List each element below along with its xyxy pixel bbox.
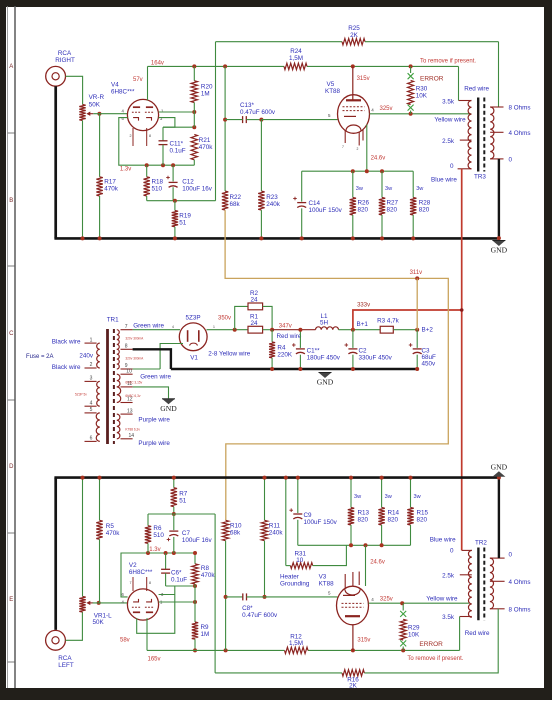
svg-text:5Z3P 5v: 5Z3P 5v <box>75 393 87 397</box>
TR2 2.5k tap <box>460 574 472 576</box>
svg-text:2: 2 <box>90 362 93 368</box>
svg-text:7: 7 <box>130 581 132 585</box>
svg-text:R23: R23 <box>266 194 278 201</box>
resistor R10 68k <box>222 520 228 540</box>
VR-R wiper arrow <box>88 113 93 115</box>
wire branch to R22 / C13 <box>224 66 226 191</box>
svg-text:GND: GND <box>491 463 508 472</box>
svg-text:2K: 2K <box>349 682 358 689</box>
svg-text:1: 1 <box>213 325 215 329</box>
svg-text:470k: 470k <box>106 530 121 537</box>
svg-text:240k: 240k <box>269 530 284 537</box>
resistor R3 4.7k <box>380 326 393 333</box>
resistor R27 820 3w <box>381 171 383 197</box>
svg-text:C12: C12 <box>182 179 194 186</box>
svg-text:Red wire: Red wire <box>277 333 302 340</box>
TR1 primary winding pins 3-4 <box>97 381 100 406</box>
cathode bus wire bottom <box>298 544 411 546</box>
svg-text:311v: 311v <box>410 270 423 276</box>
wire RCA LEFT to pot <box>65 612 82 640</box>
svg-text:3.5k: 3.5k <box>442 99 455 106</box>
resistor R15 820 3w <box>410 478 412 508</box>
wire V5 plate to 164v rail 315v <box>352 66 354 100</box>
svg-text:68k: 68k <box>230 201 241 208</box>
svg-text:KT88: KT88 <box>319 581 335 588</box>
svg-text:8: 8 <box>125 344 128 350</box>
svg-text:7: 7 <box>342 145 344 149</box>
svg-text:24: 24 <box>250 297 258 304</box>
TR2 secondary taps <box>490 557 505 559</box>
svg-text:24.6v: 24.6v <box>370 560 385 566</box>
capacitor C8 0.47uF 600v <box>226 596 243 598</box>
triode V4 6H8C <box>127 99 158 130</box>
svg-text:LEFT: LEFT <box>58 662 74 669</box>
svg-text:C14: C14 <box>309 200 321 207</box>
resistor R6 510 <box>147 514 149 526</box>
wire pot bottom to ground <box>82 121 84 239</box>
svg-text:5Z3P: 5Z3P <box>186 315 201 322</box>
svg-text:10: 10 <box>126 368 132 374</box>
svg-text:Purple wire: Purple wire <box>138 440 170 447</box>
pentode V3 KT88 <box>337 586 369 625</box>
svg-text:TR3: TR3 <box>474 174 486 181</box>
svg-text:R4: R4 <box>277 345 286 352</box>
svg-text:3: 3 <box>90 376 93 382</box>
resistor R4 220K <box>271 330 273 342</box>
V4 cathode pin stubs <box>132 128 134 146</box>
svg-text:R15: R15 <box>417 510 429 517</box>
svg-text:R29: R29 <box>408 625 420 632</box>
svg-text:8: 8 <box>149 581 151 585</box>
wire V3 pin4 to TR2 yellow tap 325v <box>369 602 469 604</box>
resistor R30 10K error branch <box>410 66 412 73</box>
svg-text:Green wire: Green wire <box>140 374 171 381</box>
svg-text:315v: 315v <box>357 76 370 82</box>
svg-text:510: 510 <box>153 532 164 539</box>
capacitor C7 100uF 16v <box>173 514 175 530</box>
svg-text:6H8C 3,15v: 6H8C 3,15v <box>125 381 142 385</box>
svg-text:C2: C2 <box>359 348 368 355</box>
svg-text:100uF 150v: 100uF 150v <box>309 207 343 214</box>
TR1 primary winding 240v pins 1-2 <box>97 343 100 368</box>
capacitor C9 100uF 150v <box>297 478 299 513</box>
resistor R11 240k <box>264 478 266 521</box>
svg-text:1.3v: 1.3v <box>149 547 160 553</box>
svg-text:50K: 50K <box>89 102 101 109</box>
svg-text:3w: 3w <box>414 494 422 500</box>
svg-text:1M: 1M <box>201 91 210 98</box>
svg-text:450v: 450v <box>422 361 437 368</box>
svg-text:100uF 150v: 100uF 150v <box>304 519 338 526</box>
svg-text:330uF 450v: 330uF 450v <box>359 355 393 362</box>
wire pin3 node <box>159 594 175 596</box>
svg-text:347v: 347v <box>279 324 292 330</box>
wire 8 ohm tap to R16 feedback <box>364 609 498 673</box>
choke L1 5H <box>316 327 339 330</box>
ground bus bottom channel <box>54 476 499 479</box>
svg-text:10: 10 <box>296 557 304 564</box>
svg-text:820: 820 <box>388 517 399 524</box>
svg-text:R7: R7 <box>179 491 188 498</box>
svg-text:R24: R24 <box>290 48 302 55</box>
orange wire 311v <box>225 210 448 520</box>
svg-text:V1: V1 <box>190 355 198 362</box>
output transformer TR2 <box>468 550 471 617</box>
svg-text:68k: 68k <box>230 530 241 537</box>
resistor R13 820 3w <box>350 478 352 508</box>
ground power supply <box>319 373 332 379</box>
TR2 0 tap (red wire from B+) <box>462 549 472 551</box>
capacitor C14 100uF 150v <box>301 171 303 201</box>
svg-text:R3 4,7k: R3 4,7k <box>377 318 400 325</box>
svg-text:325v: 325v <box>380 597 393 603</box>
svg-text:51: 51 <box>179 498 187 505</box>
wire 165v rail <box>147 649 285 651</box>
wire V4 pin 1 to R20/R21 node <box>159 111 195 113</box>
svg-text:B+1: B+1 <box>357 321 369 328</box>
TR3 3.5k tap <box>459 100 472 102</box>
svg-text:R20: R20 <box>201 84 213 91</box>
svg-text:820: 820 <box>417 517 428 524</box>
node cathode junctions <box>145 163 149 167</box>
svg-text:240v: 240v <box>79 353 94 360</box>
power transformer TR1 core <box>106 329 109 444</box>
wire cathode node to feedback <box>147 200 216 202</box>
resistor R18 510 <box>146 165 148 177</box>
wire V5 cathode to bias resistors <box>366 125 368 172</box>
svg-text:E: E <box>9 597 13 603</box>
svg-text:V3: V3 <box>319 574 327 581</box>
svg-text:180uF 450v: 180uF 450v <box>307 355 341 362</box>
wire TR1 pin 9 (green) <box>133 368 161 370</box>
svg-text:3w: 3w <box>356 186 364 192</box>
wire V1 output 350v <box>207 329 249 331</box>
resistor R7 51 <box>173 478 175 488</box>
svg-text:R14: R14 <box>388 510 400 517</box>
V2 heater pin stubs <box>132 577 134 591</box>
ground TR2 <box>492 471 505 477</box>
TR1 winding pins 11-12 <box>117 387 121 403</box>
svg-text:Blue wire: Blue wire <box>430 537 456 544</box>
capacitor C12 100uF 16v <box>172 165 174 181</box>
svg-text:2: 2 <box>130 134 132 138</box>
svg-text:C: C <box>9 331 14 337</box>
potentiometer VR-R 50K <box>79 105 85 121</box>
svg-text:KT88: KT88 <box>325 88 341 95</box>
svg-text:100uF 16v: 100uF 16v <box>182 537 213 544</box>
resistor R31 10 heater grounding <box>285 478 287 566</box>
svg-text:1: 1 <box>90 337 93 343</box>
svg-text:8: 8 <box>149 134 151 138</box>
svg-text:2.5k: 2.5k <box>442 572 455 579</box>
RCA LEFT ground wire <box>54 478 57 630</box>
svg-text:R13: R13 <box>358 510 370 517</box>
wire B+1 rail <box>339 329 381 331</box>
svg-text:325v: 325v <box>380 106 393 112</box>
capacitor C11 0.1uF <box>162 127 164 141</box>
wire 347v red wire node <box>272 329 315 331</box>
svg-text:220K: 220K <box>277 352 293 359</box>
capacitor C3 68uF 450v <box>416 330 418 348</box>
wire V1 filament to pin9 <box>160 344 183 370</box>
svg-text:Fuse = 2A: Fuse = 2A <box>26 354 54 360</box>
resistor R5 470k <box>99 478 101 521</box>
svg-text:Red wire: Red wire <box>465 630 490 637</box>
svg-text:2K: 2K <box>350 32 359 39</box>
svg-text:2-8 Yellow wire: 2-8 Yellow wire <box>208 351 251 358</box>
svg-text:Yellow wire: Yellow wire <box>434 117 466 124</box>
resistor R2 24 (upper) <box>235 306 248 329</box>
svg-text:470k: 470k <box>201 572 216 579</box>
svg-text:TR2: TR2 <box>475 539 487 546</box>
resistor R17 470k <box>99 114 101 177</box>
svg-text:R26: R26 <box>358 200 370 207</box>
wire TR1 pin7 to rectifier green wire <box>133 329 180 331</box>
svg-text:KT88 6,3v: KT88 6,3v <box>125 428 140 432</box>
svg-text:1M: 1M <box>201 631 210 638</box>
wire wiper to V4 grid pin 4 <box>93 113 127 115</box>
left margin ruler column <box>7 6 9 688</box>
resistor R28 820 3w <box>412 171 414 197</box>
svg-text:To remove if present.: To remove if present. <box>407 656 463 662</box>
wire V2 pin to 165v rail <box>146 618 148 650</box>
svg-text:RCA: RCA <box>58 50 72 57</box>
svg-text:100uF 16v: 100uF 16v <box>182 186 213 193</box>
wire TR1 pin 8 black center tap to ground <box>133 349 171 369</box>
resistor R22 68k <box>222 191 228 210</box>
svg-text:GND: GND <box>491 246 508 255</box>
svg-text:V4: V4 <box>111 82 119 89</box>
svg-text:R9: R9 <box>201 624 210 631</box>
svg-text:2: 2 <box>357 147 359 151</box>
svg-text:6: 6 <box>90 436 93 442</box>
svg-text:GND: GND <box>317 378 334 387</box>
triode V2 6H8C <box>127 589 158 620</box>
RCA RIGHT ground wire (black) <box>54 86 57 238</box>
orange branch to B+2 <box>416 278 418 329</box>
svg-text:V2: V2 <box>129 562 137 569</box>
svg-text:R5: R5 <box>106 523 115 530</box>
wire V5 pin 4 plate-tap to TR3 yellow tap 325v <box>370 113 472 115</box>
wire V3 plate to 165v rail 315v <box>352 625 354 651</box>
svg-text:R19: R19 <box>179 213 191 220</box>
resistor R12 1.5M <box>285 647 309 653</box>
svg-text:6H8C***: 6H8C*** <box>129 569 153 576</box>
svg-text:3w: 3w <box>354 494 362 500</box>
svg-text:0: 0 <box>509 156 513 163</box>
svg-text:164v: 164v <box>151 60 164 66</box>
svg-text:Purple wire: Purple wire <box>138 417 170 424</box>
resistor R26 820 3w <box>352 171 354 197</box>
svg-text:V5: V5 <box>327 81 335 88</box>
TR1 winding pins 10-11 <box>117 374 120 387</box>
RCA RIGHT input jack <box>46 66 66 86</box>
svg-text:0: 0 <box>450 548 454 555</box>
capacitor C6 0.1uF <box>165 553 167 569</box>
svg-text:Grounding: Grounding <box>280 581 310 588</box>
svg-text:10K: 10K <box>416 93 428 100</box>
svg-text:GND: GND <box>160 404 177 413</box>
resistor R9 1M <box>192 622 198 639</box>
svg-text:510: 510 <box>152 186 163 193</box>
resistor R29 10K error branch <box>402 603 404 610</box>
svg-text:240k: 240k <box>266 201 281 208</box>
RCA LEFT input jack <box>46 630 66 650</box>
resistor R23 240k <box>260 120 262 192</box>
svg-text:R27: R27 <box>387 200 399 207</box>
resistor R1 24 (lower) <box>248 326 263 333</box>
red wire 333v B+1 feed <box>353 310 462 330</box>
svg-text:0: 0 <box>509 552 513 559</box>
svg-text:820: 820 <box>358 207 369 214</box>
svg-text:C11*: C11* <box>170 141 184 148</box>
svg-text:1,5M: 1,5M <box>289 640 303 647</box>
svg-text:50K: 50K <box>93 619 105 626</box>
wire wiper to V2 grid <box>93 602 128 604</box>
svg-text:6H8C***: 6H8C*** <box>111 89 135 96</box>
svg-text:0.47uF 600v: 0.47uF 600v <box>240 109 276 116</box>
wire C13 to KT88 grid pin 5 <box>261 119 337 121</box>
wire grid-box left side (pin 6) <box>119 118 195 166</box>
capacitor C13 0.47uF 600v <box>242 116 244 123</box>
svg-text:Heater: Heater <box>280 574 299 581</box>
rectifier V1 5Z3P <box>179 323 207 351</box>
svg-text:TR1: TR1 <box>107 317 119 324</box>
node wiper junction <box>97 112 101 116</box>
svg-text:C1**: C1** <box>307 348 320 355</box>
red wire B+ vertical TR3 to TR2 <box>461 169 463 551</box>
svg-text:3w: 3w <box>416 186 424 192</box>
svg-text:8 Ohms: 8 Ohms <box>509 105 531 112</box>
svg-text:B: B <box>9 198 13 204</box>
ground TR3 <box>492 241 505 247</box>
svg-text:Green wire: Green wire <box>133 323 164 330</box>
resistor R20 1M <box>193 66 195 80</box>
resistor R24 1.5M <box>284 63 307 69</box>
wire V3 cathode to bias resistors <box>365 545 367 586</box>
svg-text:8 Ohms: 8 Ohms <box>509 606 531 613</box>
svg-text:470k: 470k <box>199 144 214 151</box>
svg-text:R6: R6 <box>153 525 162 532</box>
svg-text:R8: R8 <box>201 565 210 572</box>
resistor R19 51 <box>174 201 176 211</box>
svg-text:R28: R28 <box>419 200 431 207</box>
svg-text:C9: C9 <box>304 512 313 519</box>
svg-text:D: D <box>9 464 14 470</box>
svg-text:R17: R17 <box>104 179 116 186</box>
svg-text:7: 7 <box>125 324 128 330</box>
svg-text:24.6v: 24.6v <box>371 156 386 162</box>
TR3 secondary taps <box>490 106 503 108</box>
svg-text:0: 0 <box>450 163 454 170</box>
capacitor C1 180uF 450v <box>299 330 301 348</box>
svg-text:Red wire: Red wire <box>464 86 489 93</box>
svg-text:0.1uF: 0.1uF <box>170 148 186 155</box>
svg-text:333v: 333v <box>357 303 370 309</box>
svg-text:10K: 10K <box>408 632 420 639</box>
svg-text:RIGHT: RIGHT <box>55 57 75 64</box>
V5 pin stubs <box>344 131 346 143</box>
svg-text:820: 820 <box>419 207 430 214</box>
resistor R14 820 3w <box>381 478 383 508</box>
svg-text:R22: R22 <box>230 194 242 201</box>
wire V2 cathode path 58v <box>137 595 175 634</box>
svg-text:4: 4 <box>90 400 93 406</box>
svg-text:R21: R21 <box>199 137 211 144</box>
svg-text:470k: 470k <box>104 186 119 193</box>
ground bus power supply <box>171 368 417 370</box>
svg-text:58v: 58v <box>120 638 130 644</box>
wire 57v node to V4 pin 2 <box>147 66 149 100</box>
wire cathode node R6/C7 <box>148 513 215 515</box>
resistor R21 470k <box>191 134 197 159</box>
ground pin11 <box>162 399 175 405</box>
TR2 3.5k tap <box>460 616 472 618</box>
svg-text:ERROR: ERROR <box>420 76 444 83</box>
svg-text:57v: 57v <box>133 77 143 83</box>
wire TR1 pin 11 to GND <box>133 387 169 399</box>
svg-text:820: 820 <box>387 207 398 214</box>
wire V4 pin 3 to C11 node <box>159 118 175 128</box>
wire V2 pin 1 to R8/R9 node <box>159 601 195 603</box>
svg-text:3w: 3w <box>385 186 393 192</box>
svg-text:5: 5 <box>90 407 93 413</box>
svg-text:Blue wire: Blue wire <box>431 177 457 184</box>
wire TR2 secondary 0 to ground <box>498 478 500 558</box>
svg-text:Black wire: Black wire <box>52 364 81 371</box>
svg-text:C8*: C8* <box>242 605 253 612</box>
svg-text:C13*: C13* <box>240 102 255 109</box>
wire feedback to cathode node <box>214 514 216 673</box>
TR3 2.5k tap <box>460 139 472 141</box>
svg-text:820: 820 <box>358 517 369 524</box>
wire 164v rail <box>148 65 285 67</box>
svg-text:320v 300mA: 320v 300mA <box>125 337 144 341</box>
svg-text:6H8C 6,3v: 6H8C 6,3v <box>125 394 140 398</box>
svg-text:24: 24 <box>250 320 258 327</box>
svg-text:51: 51 <box>179 220 187 227</box>
svg-text:0.47uF 600v: 0.47uF 600v <box>242 612 278 619</box>
svg-text:5H: 5H <box>320 320 329 327</box>
svg-text:14: 14 <box>129 433 135 439</box>
svg-text:VR-R: VR-R <box>89 94 105 101</box>
TR3 0 tap to B+ red wire <box>458 168 472 170</box>
wire grid-box left (pin 6) <box>121 553 195 597</box>
svg-text:To remove if present.: To remove if present. <box>420 59 476 65</box>
resistor R16 2K feedback <box>342 670 364 676</box>
svg-text:R18: R18 <box>152 179 164 186</box>
svg-text:Black wire: Black wire <box>52 339 81 346</box>
svg-text:350v: 350v <box>218 316 231 322</box>
V3 pin stubs <box>344 574 346 589</box>
TR1 primary winding pins 5-6 <box>96 413 100 442</box>
svg-text:Yellow wire: Yellow wire <box>426 596 458 603</box>
wire RCA RIGHT to volume pot <box>66 76 83 104</box>
TR1 HT winding pins 7-8-9 <box>117 330 119 350</box>
wire pot top to ground <box>82 478 84 597</box>
svg-text:165v: 165v <box>148 657 161 663</box>
svg-text:320v 300mA: 320v 300mA <box>125 356 144 360</box>
ground bus top channel <box>54 237 499 240</box>
resistor R25 2K feedback <box>216 41 343 43</box>
svg-text:A: A <box>9 64 13 70</box>
wire TR3 secondary 0 to ground <box>498 159 500 239</box>
svg-text:ERROR: ERROR <box>419 641 443 648</box>
capacitor C2 330uF 450v <box>352 330 354 348</box>
svg-text:4 Ohms: 4 Ohms <box>509 579 531 586</box>
svg-text:1.3v: 1.3v <box>120 166 131 172</box>
svg-text:C7: C7 <box>182 530 191 537</box>
